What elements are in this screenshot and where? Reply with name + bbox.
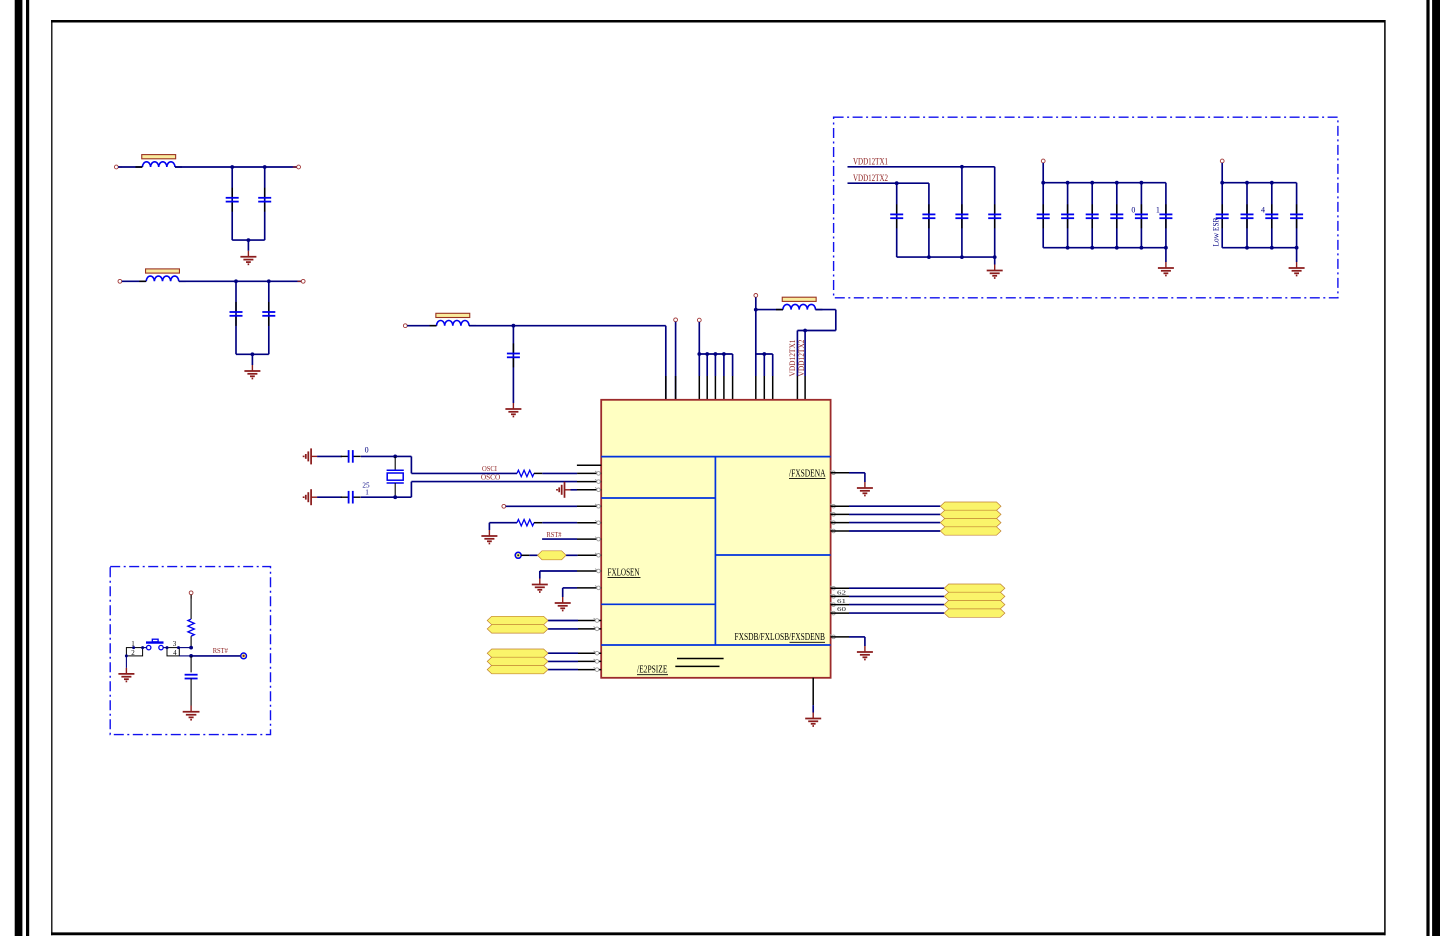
svg-text:RST#: RST# (547, 530, 562, 539)
svg-text:FXSDB/FXLOSB/FXSDENB: FXSDB/FXLOSB/FXSDENB (735, 632, 826, 643)
svg-text:3: 3 (173, 640, 177, 648)
svg-text:2: 2 (131, 649, 135, 657)
svg-text:/FXSDENA: /FXSDENA (789, 468, 826, 479)
svg-text:62: 62 (837, 590, 846, 597)
svg-text:VDD12TX1: VDD12TX1 (853, 157, 888, 167)
svg-text:Low ESR: Low ESR (1212, 217, 1221, 246)
svg-text:0: 0 (1131, 206, 1135, 215)
svg-text:/E2PSIZE: /E2PSIZE (637, 665, 668, 676)
svg-text:VDD12TX2: VDD12TX2 (853, 173, 888, 183)
svg-text:OSCO: OSCO (481, 472, 501, 481)
svg-text:RST#: RST# (213, 646, 228, 655)
svg-text:0: 0 (365, 445, 369, 454)
svg-text:60: 60 (837, 606, 846, 613)
svg-text:1: 1 (365, 489, 369, 497)
svg-text:61: 61 (837, 598, 846, 605)
svg-text:VDD12TX2: VDD12TX2 (796, 340, 806, 377)
svg-text:1: 1 (1156, 206, 1160, 215)
svg-text:1: 1 (131, 640, 135, 648)
svg-text:4: 4 (173, 649, 177, 657)
svg-text:4: 4 (1261, 206, 1265, 215)
svg-text:FXLOSEN: FXLOSEN (608, 567, 640, 578)
